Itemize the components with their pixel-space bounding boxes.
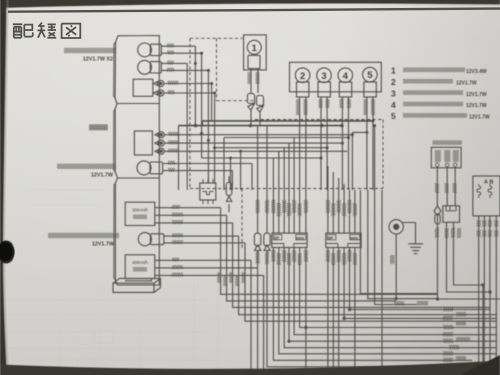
svg-text:5: 5 [367,70,373,81]
main switch connector [431,147,461,168]
wire color labels connector area bottom [256,250,357,265]
wire side stand lamp leads [164,236,245,243]
wire tach bulb 2 pins [161,63,208,70]
wire meter vertical drops [187,46,214,190]
label speedometer lamp [57,164,116,179]
legend item 4 [391,100,487,110]
wire fuse box drops [479,216,497,371]
svg-text:3: 3 [321,71,326,82]
meter housing (sensor / indicator section) [114,178,160,285]
30km/h sensor box [125,202,155,225]
wire pilot lamp 1 drops [251,69,258,94]
relay box [200,179,216,204]
switch contact unit [443,206,460,223]
svg-text:3: 3 [391,88,396,98]
svg-text:2: 2 [391,77,396,87]
legend item 1 [391,66,487,76]
tachometer socket block [133,79,153,96]
meter bracket 3D box [113,278,161,292]
label tachometer lamp [64,48,116,63]
pilot lamp 2 (oil pressure) [295,68,310,97]
dashed harness boundary [190,38,383,249]
svg-text:12V1.7W: 12V1.7W [466,92,487,98]
diode rectifier pair left [254,233,270,256]
ground symbol [408,223,423,254]
pilot lamps 2-5 box [290,62,382,92]
wire color labels bottom left drops [217,272,245,286]
svg-text:5: 5 [391,111,396,121]
ignition fuse [435,214,440,224]
wire cascade steps [202,138,349,191]
pilot lamp 1 (high beam) box [244,35,267,70]
svg-text:1: 1 [391,66,396,76]
legend item 5 [391,111,490,121]
svg-text:12V1.7W X2: 12V1.7W X2 [83,57,113,63]
svg-text:12V1.7W: 12V1.7W [92,241,115,247]
label water temp gauge [89,124,108,130]
lamp: tachometer illumination bulb 2 [138,60,162,74]
wire main bus (thick) [179,121,374,126]
top rule [8,9,500,12]
lamp: speedometer illumination bulb [137,161,163,175]
svg-text:12V1.7W: 12V1.7W [91,173,114,179]
wire 40km sensor leads [155,260,264,275]
wire bottom-left feeds [221,208,497,371]
lamp: side stand indicator bulb [138,233,164,246]
wire speedometer bulb pins [163,164,252,171]
svg-text:12V1.7W: 12V1.7W [466,103,487,109]
wire pilot lamp pins 2-5 drops [300,97,375,230]
meter housing (water temp / speedometer section) [114,104,160,179]
svg-text:4: 4 [391,100,396,110]
wire lamp1 to bus [251,110,260,125]
wire 30km sensor leads [155,208,233,223]
water temp gauge block [134,131,152,155]
diode block lamp1 b [257,96,264,113]
wire ground lead [396,239,438,299]
legend item 2 [391,77,477,87]
ghost bleed-through (decorative) [0,190,218,375]
svg-text:4: 4 [343,71,349,82]
title 配線図 [13,23,81,38]
label side stand indicator [48,233,119,248]
wire main switch leads [437,167,455,206]
label main switch [433,140,463,145]
svg-text:12V1.7W: 12V1.7W [469,115,490,121]
pilot lamp 3 (L turn signal) [317,68,332,97]
connector 6P/MINI no.2 [326,233,361,247]
connector 6P/MINI no.1 [272,233,307,247]
photo dark left edge (decorative) [0,0,7,375]
label 30km sensor [132,208,148,220]
svg-text:MINI: MINI [296,236,304,240]
fuse holder [226,176,232,212]
ground ring terminal [389,220,409,239]
wire tach socket [164,84,215,94]
40km/h sensor box [125,255,155,279]
junction dots meter area [194,52,376,160]
wire bus left drops [179,121,253,190]
ring terminal (tach socket, wire 2) [154,90,164,96]
meter housing (instrument cluster, tachometer section) [114,36,160,104]
photo dark top edge (decorative) [0,0,500,8]
wire color labels lamp pins [248,72,376,115]
wire switch unit drops [438,222,500,371]
ring terminal (temp gauge, wire 2) [155,140,164,146]
legend item 3 [391,88,487,98]
pilot lamp 4 (R turn signal) [338,68,353,97]
svg-text:30Km/h: 30Km/h [132,208,148,213]
svg-text:6P: 6P [328,235,333,240]
svg-text:12V3.4W: 12V3.4W [466,69,487,75]
wire temp gauge leads [164,135,352,152]
wire color labels connector area top [256,200,357,216]
junction dots bottom area [287,283,491,342]
wire tach bulb 1 pins [161,46,201,53]
ring terminal (temp gauge, wire 3) [155,148,164,154]
lamp: tachometer illumination bulb 1 [138,43,162,57]
ignition diode [434,206,441,224]
wire color labels bottom bus [394,301,470,362]
wire connector feeds [258,126,382,310]
ring terminal (tach socket, wire 1) [154,80,164,86]
fuse box A B [473,176,500,216]
pilot lamp 5 (neutral) [363,67,378,97]
svg-text:12V1.7W: 12V1.7W [456,80,477,86]
wire drops below connectors (staircase to right) [258,190,500,371]
ring terminal (temp gauge, wire 1) [155,132,164,138]
svg-text:2: 2 [300,71,305,82]
wire color labels main switch area [390,183,498,306]
svg-text:6P: 6P [274,235,279,240]
svg-text:1: 1 [252,43,258,54]
binder hole (decorative) [0,241,15,264]
svg-text:A B: A B [484,180,493,186]
label 40km sensor [132,260,148,272]
svg-text:MINI: MINI [350,236,358,240]
wire color labels meter area [167,43,183,276]
wire cascade step 1 [352,132,367,134]
svg-text:40Km/h: 40Km/h [132,260,148,265]
photo dark bottom edge (decorative) [0,361,500,375]
diode block lamp1 a [248,94,255,111]
